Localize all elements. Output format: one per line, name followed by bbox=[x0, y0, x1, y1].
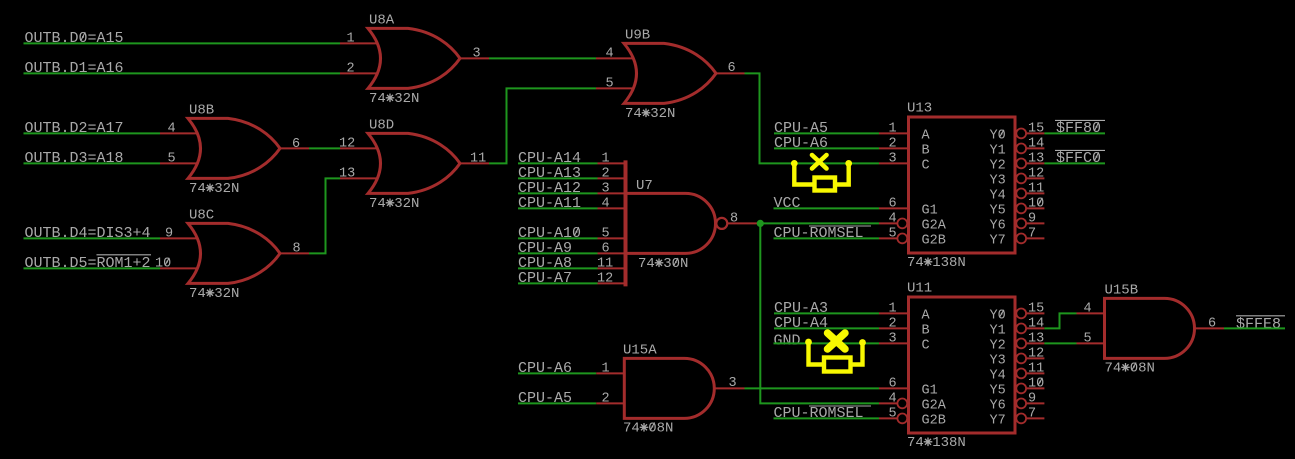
svg-text:$FF80: $FF80 bbox=[1056, 120, 1101, 137]
svg-text:74 08N: 74 08N bbox=[1105, 361, 1155, 377]
wire U7.8 to U13.G2A bbox=[760, 222, 879, 224]
U15A pin 1 bbox=[596, 372, 624, 374]
svg-text:3: 3 bbox=[729, 376, 737, 391]
wire net $FFE8 bbox=[1224, 327, 1285, 329]
wire net CPU-A11 bbox=[518, 207, 598, 209]
svg-text:13: 13 bbox=[1028, 331, 1044, 346]
U7 pin 1 bbox=[598, 162, 626, 164]
svg-text:4: 4 bbox=[168, 121, 176, 136]
U13 pin 6 G1 bbox=[879, 207, 909, 209]
svg-text:G2A: G2A bbox=[922, 398, 947, 413]
U7 pin 8 output bbox=[727, 222, 758, 224]
svg-text:U7: U7 bbox=[636, 178, 653, 194]
U7 output bubble bbox=[716, 218, 727, 229]
svg-text:7: 7 bbox=[1028, 406, 1036, 421]
svg-text:13: 13 bbox=[1028, 151, 1044, 166]
decoder U11 74*138N bbox=[909, 297, 1016, 433]
svg-text:G2B: G2B bbox=[922, 233, 946, 248]
svg-text:6: 6 bbox=[728, 61, 736, 76]
wire net VCC bbox=[774, 207, 880, 209]
svg-text:1: 1 bbox=[602, 151, 610, 166]
U11 pin 2 B bbox=[879, 327, 909, 329]
svg-text:2: 2 bbox=[602, 391, 610, 406]
wire net CPU-A6 bbox=[774, 147, 879, 149]
svg-text:U8A: U8A bbox=[369, 13, 395, 29]
U13 pin 13 Y2 bbox=[1016, 159, 1026, 169]
wire U8C.8 to U8D.13 bbox=[309, 178, 340, 253]
U8C pin 8 output bbox=[280, 252, 309, 254]
svg-text:74 08N: 74 08N bbox=[623, 421, 673, 437]
U13 pin 10 Y5 bbox=[1016, 204, 1026, 214]
U13 pin 12 Y3 bbox=[1016, 174, 1026, 184]
wire net CPU-A7 bbox=[518, 282, 598, 284]
wire U8D.11 to U9B.5 bbox=[489, 88, 596, 163]
svg-text:11: 11 bbox=[1028, 361, 1044, 376]
svg-text:U11: U11 bbox=[907, 281, 932, 297]
svg-text:4: 4 bbox=[889, 211, 897, 226]
svg-text:5: 5 bbox=[168, 151, 176, 166]
wire net CPU-A9 bbox=[518, 252, 598, 254]
decoder U13 74*138N bbox=[909, 117, 1016, 253]
svg-text:8: 8 bbox=[730, 211, 738, 226]
U15A pin 2 bbox=[596, 402, 624, 404]
yellow cut mark X at U11.C bbox=[828, 333, 846, 349]
wire net OUTB.D1=A16 bbox=[24, 72, 341, 74]
U11 pin 12 Y3 bbox=[1016, 354, 1026, 364]
wire net CPU-A5 bbox=[774, 132, 879, 134]
svg-text:U8B: U8B bbox=[189, 103, 214, 119]
svg-text:G1: G1 bbox=[922, 383, 938, 398]
wire net $FF80 bbox=[1044, 132, 1105, 134]
or-gate U8A bbox=[368, 28, 460, 88]
U8A pin 2 bbox=[340, 72, 378, 74]
wire U11.Y1 to U15B.4 bbox=[1044, 313, 1076, 328]
U13 pin 2 B bbox=[879, 147, 909, 149]
wire U8B.6 to U8D.12 bbox=[309, 147, 340, 149]
wire net CPU-A12 bbox=[518, 192, 598, 194]
svg-text:4: 4 bbox=[602, 196, 610, 211]
svg-text:5: 5 bbox=[1084, 331, 1092, 346]
svg-text:Y4: Y4 bbox=[990, 188, 1006, 203]
svg-text:74 138N: 74 138N bbox=[907, 435, 966, 451]
wire net GND bbox=[774, 342, 880, 344]
U9B pin 5 bbox=[596, 87, 634, 89]
svg-text:2: 2 bbox=[347, 61, 355, 76]
svg-text:Y6: Y6 bbox=[990, 218, 1006, 233]
U15B pin 6 output bbox=[1195, 327, 1225, 329]
U7 pin 12 bbox=[598, 282, 626, 284]
svg-text:$FFE8: $FFE8 bbox=[1236, 316, 1281, 333]
svg-text:U9B: U9B bbox=[625, 28, 650, 44]
wire net CPU-A6 bbox=[518, 372, 596, 374]
svg-text:14: 14 bbox=[1028, 316, 1044, 331]
wire net $FFC0 bbox=[1044, 162, 1105, 164]
U11 pin 9 Y6 bbox=[1016, 399, 1026, 409]
U8A pin 1 bbox=[340, 42, 378, 44]
svg-text:7: 7 bbox=[1028, 226, 1036, 241]
svg-text:Y3: Y3 bbox=[990, 173, 1006, 188]
svg-text:Y2: Y2 bbox=[990, 338, 1006, 353]
svg-text:B: B bbox=[922, 143, 930, 158]
wire net OUTB.D5=ROM1+2 bbox=[24, 267, 161, 269]
svg-text:G1: G1 bbox=[922, 203, 938, 218]
svg-text:15: 15 bbox=[1028, 121, 1044, 136]
svg-text:74 32N: 74 32N bbox=[369, 91, 419, 107]
svg-text:5: 5 bbox=[889, 406, 897, 421]
svg-text:14: 14 bbox=[1028, 136, 1044, 151]
U7 pin 5 bbox=[598, 237, 626, 239]
svg-text:1: 1 bbox=[347, 31, 355, 46]
U13 pin 5 G2B bbox=[879, 237, 897, 239]
svg-text:1: 1 bbox=[889, 121, 897, 136]
svg-text:9: 9 bbox=[165, 226, 173, 241]
wire net CPU-ROMSEL bbox=[774, 237, 880, 239]
svg-text:6: 6 bbox=[1208, 316, 1216, 331]
svg-text:74 32N: 74 32N bbox=[369, 196, 419, 212]
svg-text:U15B: U15B bbox=[1105, 283, 1139, 299]
wire U15A.3 to U11.G1 bbox=[745, 387, 880, 389]
svg-text:Y6: Y6 bbox=[990, 398, 1006, 413]
svg-text:4: 4 bbox=[606, 46, 614, 61]
svg-text:4: 4 bbox=[889, 391, 897, 406]
U11 pin 11 Y4 bbox=[1016, 369, 1026, 379]
svg-text:3: 3 bbox=[889, 331, 897, 346]
svg-text:GND: GND bbox=[774, 332, 801, 349]
wire net CPU-A4 bbox=[774, 327, 879, 329]
svg-text:2: 2 bbox=[602, 166, 610, 181]
U8D pin 13 bbox=[340, 177, 378, 179]
U11 pin 3 C bbox=[879, 342, 909, 344]
svg-text:5: 5 bbox=[602, 226, 610, 241]
U9B pin 6 output bbox=[716, 72, 745, 74]
wire net OUTB.D0=A15 bbox=[24, 42, 341, 44]
svg-text:8: 8 bbox=[293, 241, 301, 256]
yellow cut mark X at U13.C bbox=[812, 155, 827, 169]
yellow jumper resistor at U11.C bbox=[805, 339, 812, 346]
wire U9B.6 to U13.C bbox=[745, 73, 880, 163]
yellow jumper resistor at U13.C bbox=[791, 160, 798, 167]
U7 pin 2 bbox=[598, 177, 626, 179]
wire vertical junction to U11.G2A bbox=[760, 223, 879, 403]
svg-text:6: 6 bbox=[292, 137, 300, 152]
svg-text:C: C bbox=[922, 158, 930, 173]
U8B pin 4 bbox=[160, 132, 198, 134]
wire net OUTB.D2=A17 bbox=[24, 132, 161, 134]
wire net OUTB.D4=DIS3+4 bbox=[24, 237, 161, 239]
U13 pin 11 Y4 bbox=[1016, 189, 1026, 199]
svg-text:$FFC0: $FFC0 bbox=[1056, 150, 1101, 167]
U8B pin 5 bbox=[160, 162, 198, 164]
U13 pin 14 Y1 bbox=[1016, 144, 1026, 154]
U15B pin 5 bbox=[1077, 342, 1105, 344]
wire net CPU-A14 bbox=[518, 162, 598, 164]
svg-text:6: 6 bbox=[889, 196, 897, 211]
svg-text:G2A: G2A bbox=[922, 218, 947, 233]
U13 pin 15 Y0 bbox=[1016, 129, 1026, 139]
svg-text:A: A bbox=[922, 128, 931, 143]
wire U11.Y2 to U15B.5 bbox=[1044, 342, 1076, 344]
svg-text:74 32N: 74 32N bbox=[189, 286, 239, 302]
svg-text:15: 15 bbox=[1028, 301, 1044, 316]
svg-text:Y4: Y4 bbox=[990, 368, 1006, 383]
junction at U7 output bbox=[757, 220, 764, 227]
svg-text:5: 5 bbox=[606, 76, 614, 91]
U7 pin 6 bbox=[598, 252, 626, 254]
svg-text:11: 11 bbox=[597, 256, 613, 271]
wire net OUTB.D3=A18 bbox=[24, 162, 161, 164]
U8A pin 3 output bbox=[460, 57, 489, 59]
wire U8A.3 to U9B.4 bbox=[489, 57, 596, 59]
svg-text:5: 5 bbox=[889, 226, 897, 241]
svg-text:3: 3 bbox=[473, 46, 481, 61]
svg-text:12: 12 bbox=[1028, 166, 1044, 181]
U11 pin 15 Y0 bbox=[1016, 309, 1026, 319]
wire net CPU-ROMSEL bbox=[774, 417, 880, 419]
or-gate U8C bbox=[188, 223, 280, 283]
U13 pin 7 Y7 bbox=[1016, 234, 1026, 244]
U8C pin 9 bbox=[160, 237, 198, 239]
svg-text:C: C bbox=[922, 338, 930, 353]
svg-text:11: 11 bbox=[470, 151, 486, 166]
svg-text:Y2: Y2 bbox=[990, 158, 1006, 173]
wire net CPU-A13 bbox=[518, 177, 598, 179]
svg-text:4: 4 bbox=[1084, 301, 1092, 316]
U11 pin 14 Y1 bbox=[1016, 324, 1026, 334]
wire net CPU-A5 bbox=[518, 402, 596, 404]
U11 pin 4 G2A bbox=[879, 402, 897, 404]
svg-text:3: 3 bbox=[889, 151, 897, 166]
svg-text:Y1: Y1 bbox=[990, 323, 1006, 338]
svg-text:2: 2 bbox=[889, 136, 897, 151]
svg-text:U13: U13 bbox=[907, 101, 932, 117]
svg-text:6: 6 bbox=[889, 376, 897, 391]
or-gate U8D bbox=[368, 133, 460, 193]
U13 pin 1 A bbox=[879, 132, 909, 134]
svg-text:U8D: U8D bbox=[369, 118, 394, 134]
svg-text:B: B bbox=[922, 323, 930, 338]
U7 pin 3 bbox=[598, 192, 626, 194]
svg-text:3: 3 bbox=[602, 181, 610, 196]
svg-text:1: 1 bbox=[602, 361, 610, 376]
U8D pin 12 bbox=[340, 147, 378, 149]
svg-text:12: 12 bbox=[339, 136, 355, 151]
wire net CPU-A8 bbox=[518, 267, 598, 269]
U8D pin 11 output bbox=[460, 162, 489, 164]
svg-text:Y5: Y5 bbox=[990, 383, 1006, 398]
svg-text:G2B: G2B bbox=[922, 413, 946, 428]
svg-text:6: 6 bbox=[602, 241, 610, 256]
svg-text:13: 13 bbox=[339, 166, 355, 181]
U11 pin 6 G1 bbox=[879, 387, 909, 389]
U13 pin 3 C bbox=[879, 162, 909, 164]
svg-text:12: 12 bbox=[597, 271, 613, 286]
wire net CPU-A10 bbox=[518, 237, 598, 239]
svg-text:2: 2 bbox=[889, 316, 897, 331]
svg-text:Y3: Y3 bbox=[990, 353, 1006, 368]
U7 pin 4 bbox=[598, 207, 626, 209]
svg-text:74 32N: 74 32N bbox=[189, 181, 239, 197]
svg-text:74 32N: 74 32N bbox=[625, 106, 675, 122]
svg-text:A: A bbox=[922, 308, 931, 323]
U11 pin 10 Y5 bbox=[1016, 384, 1026, 394]
U9B pin 4 bbox=[596, 57, 634, 59]
U11 pin 1 A bbox=[879, 312, 909, 314]
U15A pin 3 output bbox=[714, 387, 744, 389]
svg-text:U15A: U15A bbox=[623, 343, 657, 359]
svg-text:Y1: Y1 bbox=[990, 143, 1006, 158]
U11 pin 7 Y7 bbox=[1016, 414, 1026, 424]
svg-text:Y7: Y7 bbox=[990, 413, 1006, 428]
U8B pin 6 output bbox=[280, 147, 309, 149]
svg-text:11: 11 bbox=[1028, 181, 1044, 196]
wire net CPU-A3 bbox=[774, 312, 879, 314]
and-gate U15B bbox=[1105, 298, 1195, 358]
svg-text:9: 9 bbox=[1028, 391, 1036, 406]
U11 pin 5 G2B bbox=[879, 417, 897, 419]
svg-text:74 30N: 74 30N bbox=[638, 256, 688, 272]
svg-text:U8C: U8C bbox=[189, 208, 214, 224]
and-gate U15A bbox=[624, 358, 714, 418]
svg-text:12: 12 bbox=[1028, 346, 1044, 361]
nand-gate U7 74*30N bbox=[624, 160, 628, 286]
or-gate U8B bbox=[188, 118, 280, 178]
svg-text:1: 1 bbox=[889, 301, 897, 316]
U8C pin 10 bbox=[160, 267, 198, 269]
U7 pin 11 bbox=[598, 267, 626, 269]
svg-text:Y5: Y5 bbox=[990, 203, 1006, 218]
svg-text:74 138N: 74 138N bbox=[907, 255, 966, 271]
U13 pin 4 G2A bbox=[879, 222, 897, 224]
U13 pin 9 Y6 bbox=[1016, 219, 1026, 229]
or-gate U9B bbox=[624, 43, 716, 103]
svg-text:9: 9 bbox=[1028, 211, 1036, 226]
U15B pin 4 bbox=[1077, 312, 1105, 314]
U11 pin 13 Y2 bbox=[1016, 339, 1026, 349]
svg-text:Y7: Y7 bbox=[990, 233, 1006, 248]
